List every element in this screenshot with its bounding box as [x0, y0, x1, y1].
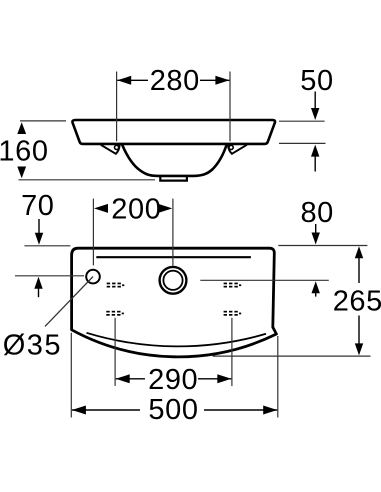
right bracket screw hole	[229, 145, 233, 149]
dim 280: right arrowhead	[215, 76, 229, 85]
plan view: inner front arc	[87, 333, 267, 347]
front view: bowl outer curve	[122, 144, 227, 176]
dim 70: upper arrow (down)	[38, 219, 40, 234]
svg-text:50: 50	[300, 65, 333, 97]
dim 160: up arrowhead	[17, 122, 26, 134]
dim 500: left extension line	[70, 333, 72, 418]
dim 70: bottom extension line	[15, 275, 84, 277]
dim 160: down arrowhead	[17, 167, 26, 179]
dim 290: left extension line	[114, 318, 116, 386]
dim 290: right arrowhead	[217, 374, 231, 383]
dim 265: lower line segment	[358, 316, 360, 346]
dashed knockout mark upper-left	[107, 283, 125, 288]
dim 200: right arrowhead	[158, 204, 172, 213]
dim 290: dimension line right segment	[198, 378, 231, 380]
top extension line for dims 80 and 265	[278, 245, 367, 247]
drain hole inner circle	[163, 271, 182, 290]
dashed knockout mark upper-right	[224, 283, 242, 288]
dim 280: dimension line right segment	[200, 79, 229, 81]
dim 290: left arrowhead	[116, 374, 130, 383]
svg-text:200: 200	[111, 194, 161, 226]
dim 160: top extension line	[20, 120, 66, 122]
plan view: basin outline	[72, 248, 277, 357]
dim 50: bottom extension line	[279, 142, 326, 144]
dim 265: upper arrowhead (up)	[355, 246, 363, 258]
dim 290: right extension line	[231, 318, 233, 386]
dim 80: lower arrow (up)	[315, 292, 317, 297]
dim 280: dimension line left segment	[117, 79, 148, 81]
svg-text:80: 80	[300, 197, 333, 229]
bottom extension line for dim 265	[213, 355, 371, 357]
front view: basin rim outline	[72, 120, 275, 144]
dim 80: upper arrow (down)	[315, 224, 317, 234]
dim 200: left extension line	[92, 199, 94, 266]
leader line for tap hole diameter	[45, 277, 93, 327]
tap hole circle	[86, 270, 100, 284]
dim 50: lower arrow (up)	[314, 155, 316, 172]
svg-text:265: 265	[333, 285, 381, 317]
drain hole outer circle	[160, 267, 187, 294]
dim 500: dimension line right segment	[204, 409, 277, 411]
front view: drain tab at bowl bottom	[160, 176, 187, 181]
dim 160: bottom extension line	[19, 179, 156, 181]
dim 500: left arrowhead	[72, 406, 86, 415]
dim 200: right extension line	[172, 199, 174, 266]
dim 290: dimension line left segment	[116, 378, 145, 380]
dim 500: dimension line left segment	[72, 409, 140, 411]
dim 200: left arrowhead	[94, 204, 108, 213]
dim 280: left arrowhead	[117, 76, 131, 85]
dim 500: right extension line	[277, 336, 279, 418]
drain-level extension line for dims 80 and 265	[200, 279, 328, 281]
dim 265: upper line segment	[358, 257, 360, 283]
left bracket screw hole	[115, 145, 119, 149]
dim 50: top extension line	[279, 120, 325, 122]
dim 280: right extension line	[229, 72, 231, 142]
dashed knockout mark lower-left	[106, 311, 124, 316]
svg-text:290: 290	[148, 364, 198, 396]
svg-text:Ø35: Ø35	[3, 330, 62, 362]
svg-text:280: 280	[150, 65, 200, 97]
dim 280: left extension line	[116, 72, 118, 142]
dim 265: lower arrowhead (down)	[355, 343, 363, 355]
dashed knockout mark lower-right	[224, 311, 242, 316]
svg-text:500: 500	[148, 394, 198, 426]
dim 50: upper arrow (down)	[314, 92, 316, 111]
dim 500: right arrowhead	[263, 406, 277, 415]
front view: right mounting bracket	[228, 145, 247, 154]
dim 70: top extension line	[24, 245, 70, 247]
svg-text:160: 160	[0, 135, 49, 167]
svg-text:70: 70	[21, 190, 54, 222]
front view: left mounting bracket	[101, 145, 120, 154]
plan view: back ledge line	[96, 256, 251, 258]
dim 70: lower arrow (up)	[38, 287, 40, 297]
